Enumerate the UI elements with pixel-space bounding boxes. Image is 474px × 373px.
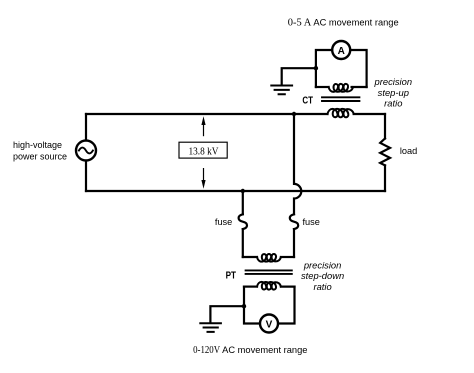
wire: ammeter loop bottom left stub xyxy=(316,86,329,88)
inductor PT secondary (bumps up, loops below) xyxy=(257,282,281,290)
wire: PT secondary loop sides and bottom xyxy=(244,287,295,324)
wire: PT feeder vertical with crossover hop xyxy=(294,114,301,214)
wire: PT secondary loop top right stub xyxy=(281,286,295,288)
wire: ammeter loop (left, top, right sides) xyxy=(316,50,367,87)
svg-text:A: A xyxy=(338,46,345,57)
svg-text:high-voltage: high-voltage xyxy=(13,140,62,150)
CT core lines xyxy=(322,97,359,101)
wire: PT primary horizontal right stub xyxy=(281,256,294,258)
box: 13.8 kV value xyxy=(179,142,227,158)
svg-text:0-5 A AC movement range: 0-5 A AC movement range xyxy=(288,16,399,28)
PT core lines xyxy=(246,270,292,274)
junction: top bus to PT feeder xyxy=(292,112,296,116)
source V1 sine symbol xyxy=(79,148,93,154)
wire: left side lower xyxy=(85,161,87,191)
wire: left fuse to PT primary xyxy=(242,229,244,257)
wire: PT primary horizontal left stub xyxy=(243,256,257,258)
wire: top bus left segment xyxy=(86,113,328,115)
wire: right side upper xyxy=(384,114,386,139)
source V1 circle (high-voltage power source) xyxy=(76,141,96,161)
junction: PT loop / ground tap xyxy=(242,304,246,308)
wire: right fuse to PT primary xyxy=(293,229,295,257)
svg-text:step-down: step-down xyxy=(301,270,344,281)
svg-text:13.8 kV: 13.8 kV xyxy=(189,145,219,157)
svg-text:ratio: ratio xyxy=(384,98,402,109)
svg-text:0-120V AC movement range: 0-120V AC movement range xyxy=(193,344,307,356)
wire: bottom bus xyxy=(86,190,385,192)
wire: right side lower xyxy=(384,165,386,191)
wire: ammeter loop bottom right stub xyxy=(352,86,367,88)
resistor load xyxy=(380,139,390,166)
fuse F1 (left) xyxy=(239,214,247,229)
wire: PT secondary loop top left stub xyxy=(244,286,257,288)
inductor PT primary (bumps down, loops above) xyxy=(257,254,281,262)
svg-text:CT: CT xyxy=(302,95,313,106)
svg-text:PT: PT xyxy=(226,270,237,281)
junction: CT loop / ground tap xyxy=(314,66,318,70)
wire: PT ground branch xyxy=(210,306,244,322)
wire: top bus right segment xyxy=(354,113,385,115)
junction: bottom bus to left fuse xyxy=(241,189,245,193)
svg-text:precision: precision xyxy=(303,260,342,271)
fuse F2 (right) xyxy=(290,214,298,229)
voltmeter M2 circle xyxy=(260,315,278,333)
arrow up to top bus xyxy=(203,124,205,136)
svg-text:fuse: fuse xyxy=(303,217,320,227)
ammeter M1 circle xyxy=(332,41,350,59)
inductor CT primary (on top bus, loops below) xyxy=(328,109,354,117)
svg-text:step-up: step-up xyxy=(378,87,409,98)
svg-text:precision: precision xyxy=(374,76,413,87)
ground (CT secondary) xyxy=(271,86,292,95)
svg-text:V: V xyxy=(266,319,273,330)
svg-text:power source: power source xyxy=(13,151,67,161)
wire: CT ground branch xyxy=(282,68,316,84)
svg-text:load: load xyxy=(400,146,417,156)
wire: left fuse drop xyxy=(242,191,244,214)
svg-text:ratio: ratio xyxy=(313,281,331,292)
arrow down to bottom bus xyxy=(203,169,205,180)
wire: left side upper xyxy=(85,114,87,140)
ground (PT secondary) xyxy=(200,323,221,332)
svg-text:fuse: fuse xyxy=(215,217,232,227)
inductor CT secondary (bumps down, loops above) xyxy=(329,84,353,92)
